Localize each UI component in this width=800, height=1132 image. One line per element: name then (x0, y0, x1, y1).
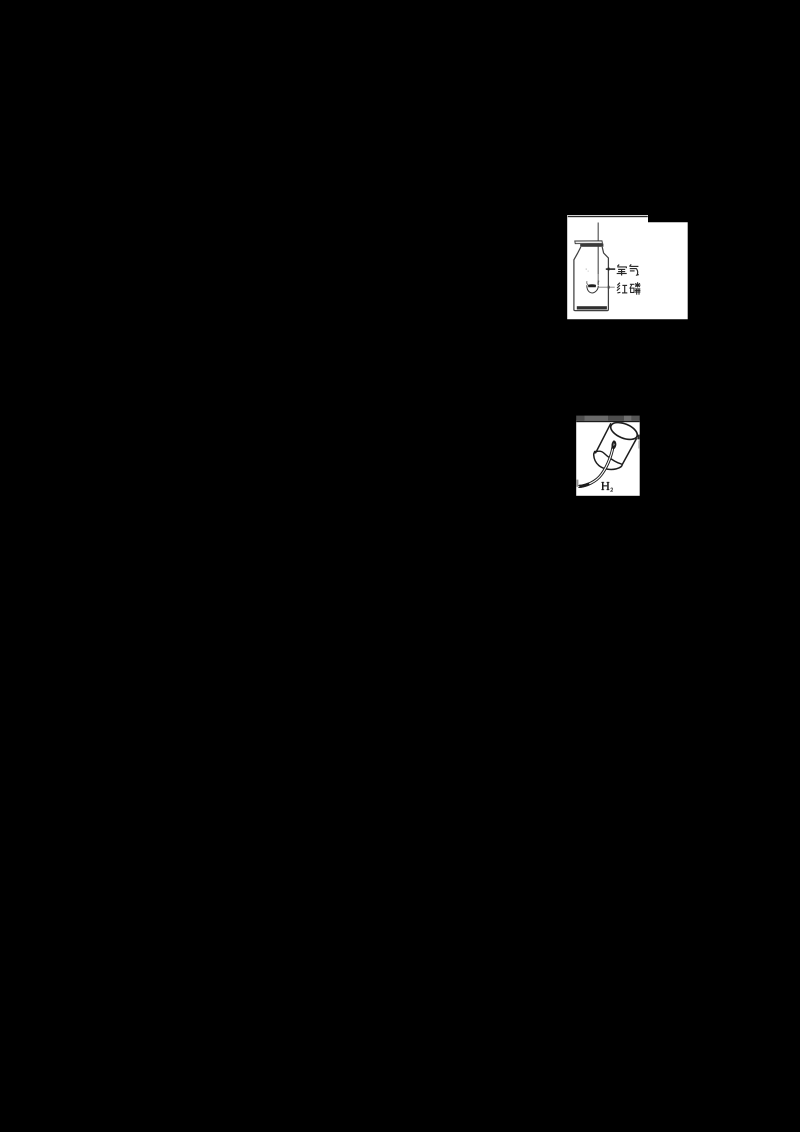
gray header bar segments (576, 416, 584, 421)
figure 2: hydrogen collection jar (576, 415, 640, 497)
jar left wall (596, 423, 611, 451)
tube end solid segment (579, 484, 589, 487)
figure 1: oxygen bottle with red phosphorus (567, 214, 688, 320)
mouth rim top edge (596, 451, 622, 464)
faint spark specks (586, 269, 587, 270)
jar bottom ellipse (608, 419, 639, 443)
pointer line to red phosphorus label (598, 287, 614, 288)
label 气 (oxygen char 2) (629, 264, 638, 275)
label 氧 (oxygen char 1) (617, 265, 627, 276)
spoon cup with red phosphorus (588, 284, 596, 287)
spoon handle rod (598, 223, 599, 286)
top rule line (568, 216, 648, 217)
spoon cup rim ticks (587, 281, 588, 285)
pointer line to oxygen label (606, 268, 615, 270)
delivery tube (double line) (578, 444, 613, 486)
nozzle tip (611, 440, 616, 449)
mouth rim outer arc (594, 452, 623, 470)
bottle outline (574, 247, 609, 311)
bottle bottom thick bar (577, 306, 607, 309)
white paper patch (576, 421, 640, 496)
light gray notch right edge (638, 441, 639, 449)
white paper patch with notched top-right corner (567, 215, 688, 319)
tick above ellipse (619, 422, 622, 424)
rim bump (594, 451, 596, 453)
dark blob right edge (637, 435, 639, 440)
thin dark line under bar (576, 421, 640, 422)
bottle mouth rim (580, 244, 603, 247)
jar right wall (622, 438, 637, 464)
H2 label (drawn glyphs) (601, 482, 609, 490)
label 磷 (red phosphorus char 2) (630, 282, 641, 295)
glass lid plate (575, 241, 603, 244)
label 红 (red phosphorus char 1) (617, 283, 627, 293)
gray notch left edge (576, 480, 578, 487)
